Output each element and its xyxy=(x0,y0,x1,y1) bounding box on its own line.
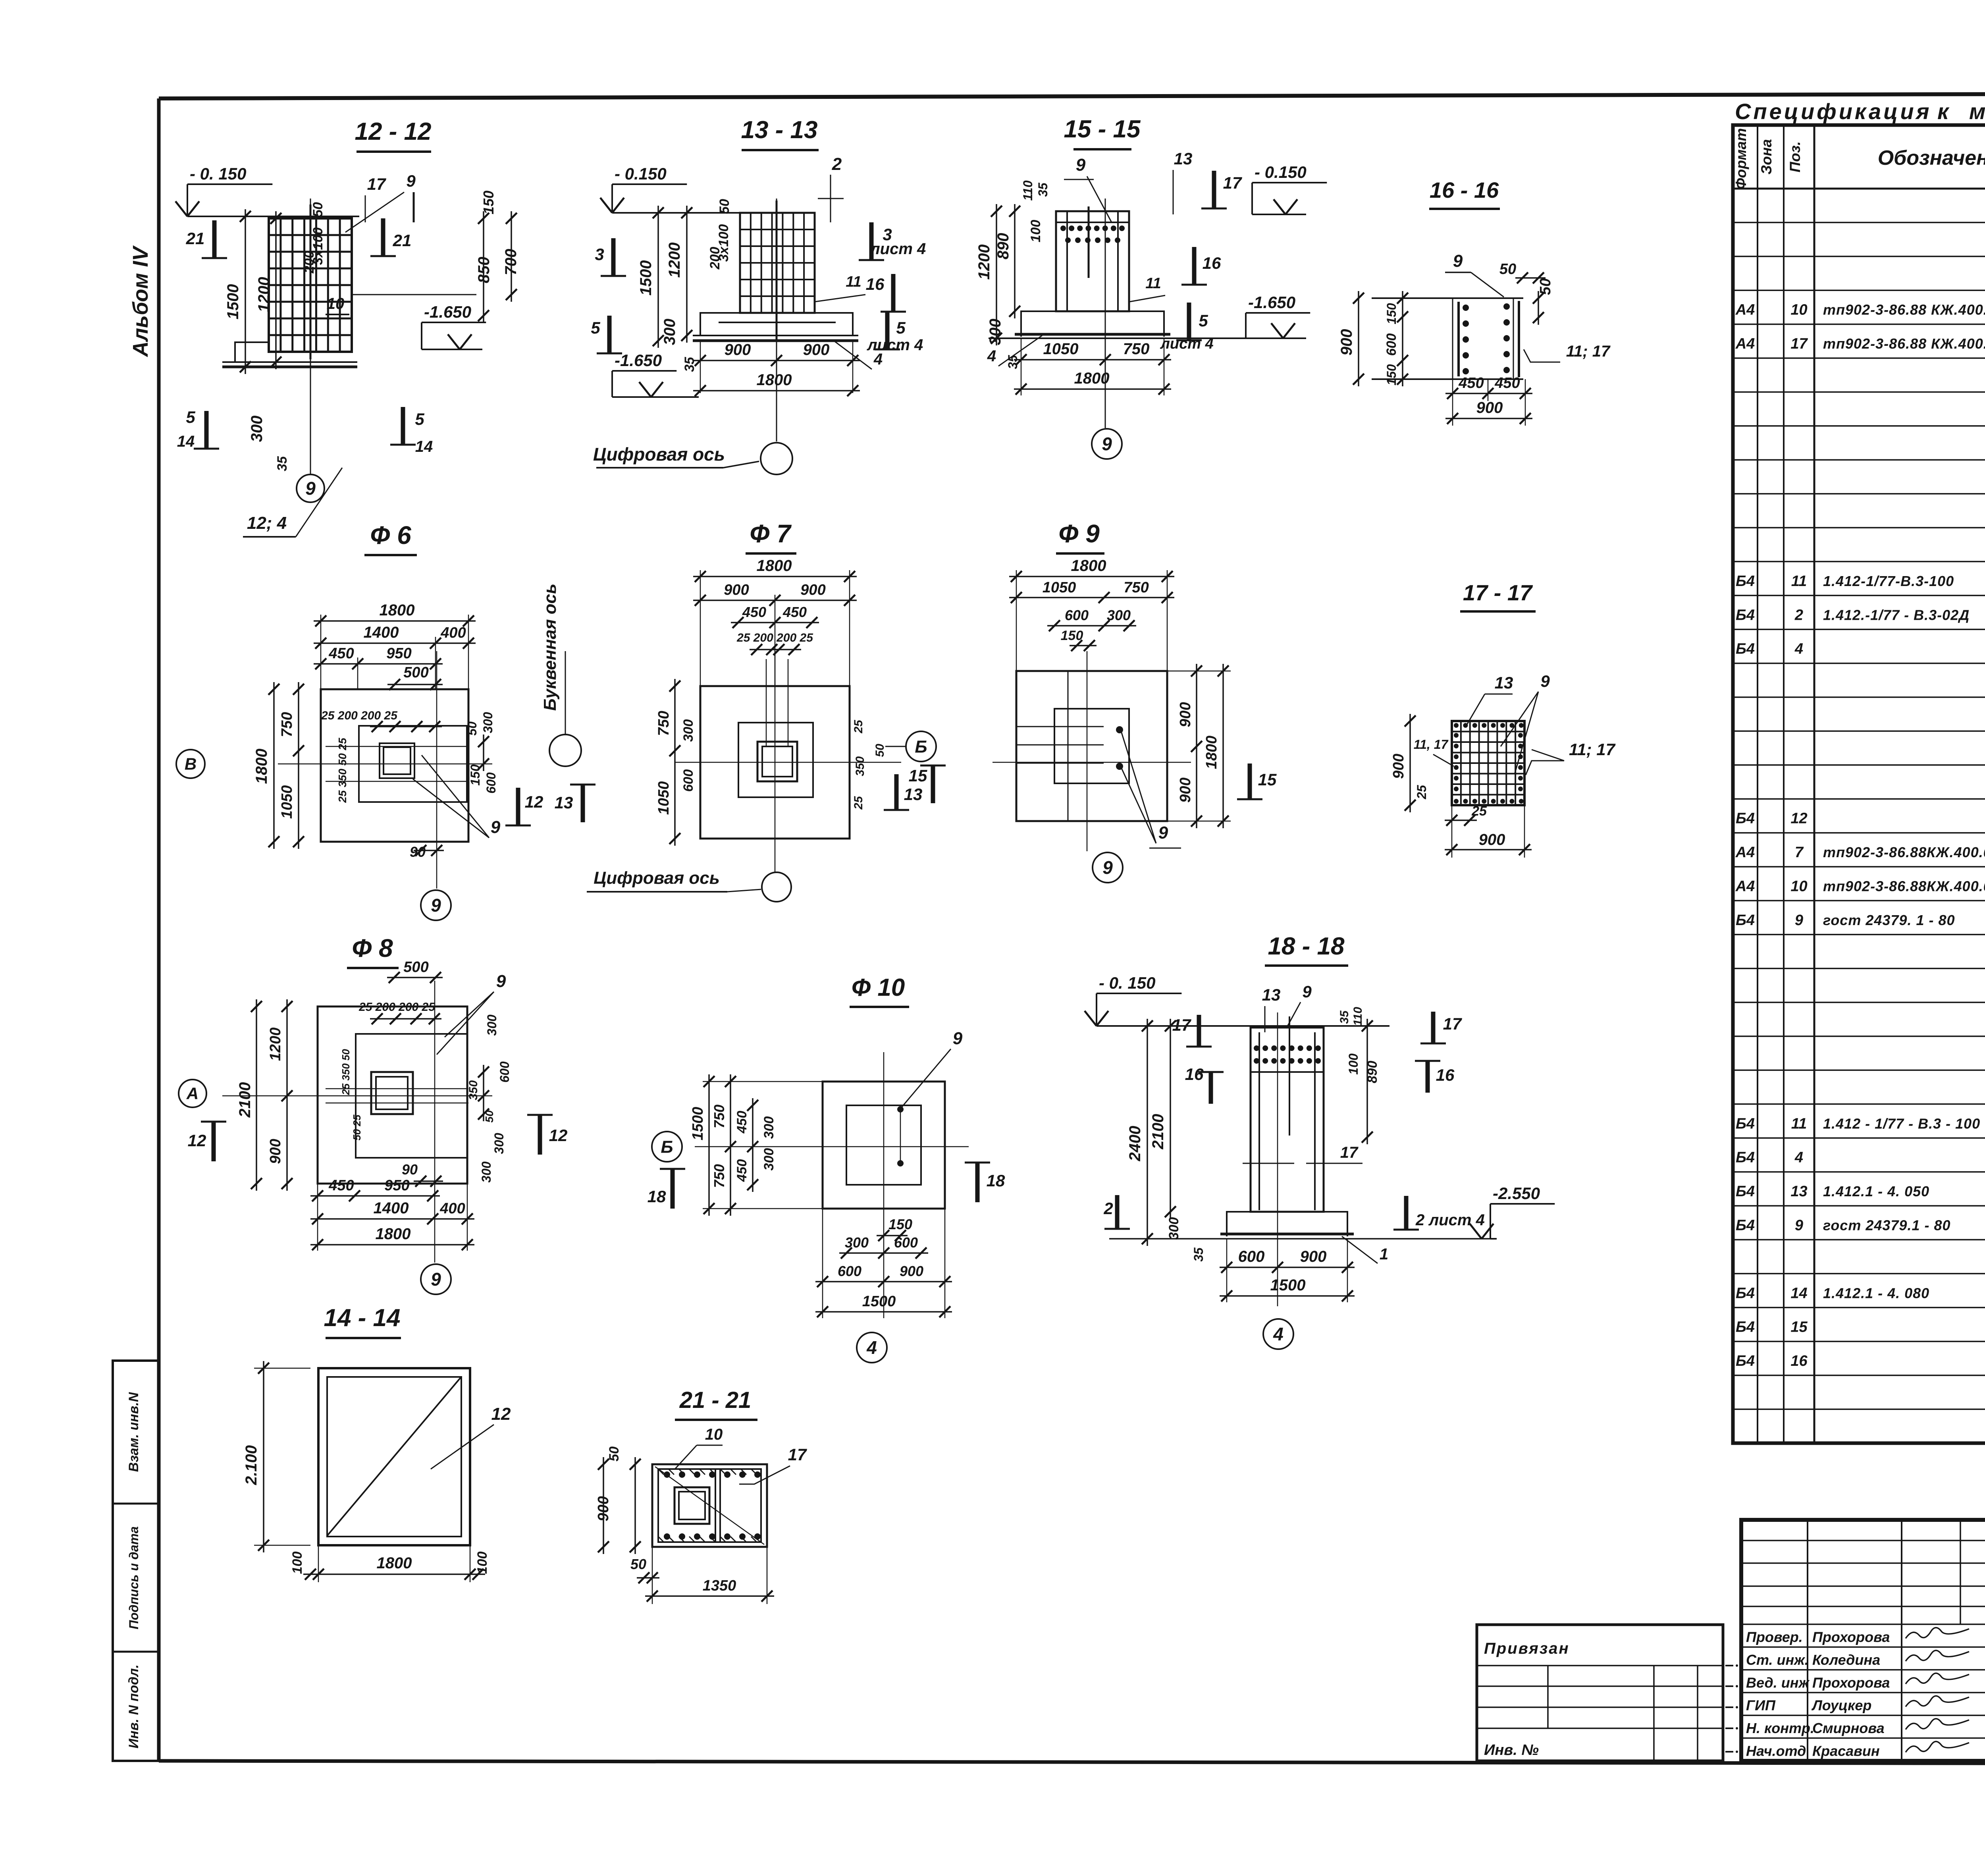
svg-text:- 0. 150: - 0. 150 xyxy=(190,164,246,183)
svg-text:Привязан: Привязан xyxy=(1484,1640,1570,1657)
svg-text:600: 600 xyxy=(1238,1248,1265,1265)
svg-text:890: 890 xyxy=(994,233,1012,260)
svg-text:16: 16 xyxy=(1185,1065,1204,1084)
svg-text:150: 150 xyxy=(468,764,482,786)
svg-text:11: 11 xyxy=(1791,573,1807,590)
svg-text:Прохорова: Прохорова xyxy=(1812,1629,1890,1645)
svg-text:50 25: 50 25 xyxy=(351,1114,363,1141)
svg-text:150: 150 xyxy=(888,1216,912,1232)
svg-text:лист 4: лист 4 xyxy=(1160,335,1213,352)
svg-text:25: 25 xyxy=(1415,785,1429,800)
svg-text:300: 300 xyxy=(761,1148,777,1171)
svg-text:11: 11 xyxy=(1791,1115,1807,1132)
svg-text:50: 50 xyxy=(310,202,326,217)
svg-text:17: 17 xyxy=(1172,1016,1191,1034)
svg-text:Провер.: Провер. xyxy=(1746,1629,1803,1645)
svg-text:- 0.150: - 0.150 xyxy=(615,164,667,183)
svg-text:900: 900 xyxy=(800,582,825,598)
svg-text:Б4: Б4 xyxy=(1736,607,1755,623)
svg-text:950: 950 xyxy=(386,645,411,662)
svg-text:В: В xyxy=(185,755,197,773)
svg-text:4: 4 xyxy=(873,351,883,368)
svg-text:11; 17: 11; 17 xyxy=(1569,740,1616,759)
svg-text:12: 12 xyxy=(188,1131,206,1150)
svg-text:16: 16 xyxy=(1436,1066,1455,1084)
svg-text:50: 50 xyxy=(465,721,479,736)
svg-text:50: 50 xyxy=(1537,278,1554,295)
svg-text:12: 12 xyxy=(549,1126,568,1145)
svg-text:4: 4 xyxy=(866,1337,877,1358)
svg-text:Б: Б xyxy=(915,737,927,756)
svg-text:16 - 16: 16 - 16 xyxy=(1430,177,1499,202)
svg-text:25 350 50: 25 350 50 xyxy=(340,1049,352,1095)
svg-text:150: 150 xyxy=(1384,364,1399,386)
svg-text:1400: 1400 xyxy=(364,624,399,641)
svg-text:100: 100 xyxy=(1346,1053,1361,1075)
svg-text:600: 600 xyxy=(1065,607,1089,623)
svg-text:1500: 1500 xyxy=(637,260,655,296)
svg-text:Смирнова: Смирнова xyxy=(1812,1720,1885,1736)
svg-text:11: 11 xyxy=(1145,275,1161,292)
svg-text:9: 9 xyxy=(1795,1217,1803,1234)
svg-text:300: 300 xyxy=(845,1234,869,1251)
svg-text:17: 17 xyxy=(1223,174,1242,192)
svg-text:Б4: Б4 xyxy=(1736,912,1755,929)
svg-text:900: 900 xyxy=(1390,754,1407,779)
svg-text:90: 90 xyxy=(402,1161,418,1178)
svg-text:Ф 9: Ф 9 xyxy=(1058,519,1100,548)
svg-text:25 200 200 25: 25 200 200 25 xyxy=(321,709,398,722)
svg-text:12 - 12: 12 - 12 xyxy=(355,118,431,145)
svg-text:1800: 1800 xyxy=(253,749,270,784)
svg-text:1500: 1500 xyxy=(862,1293,896,1310)
svg-text:5: 5 xyxy=(1199,311,1208,330)
svg-text:2: 2 xyxy=(1794,607,1803,623)
svg-text:Б4: Б4 xyxy=(1736,1319,1755,1336)
svg-text:9: 9 xyxy=(953,1029,963,1048)
svg-text:25: 25 xyxy=(852,719,865,734)
svg-text:110: 110 xyxy=(1351,1007,1364,1026)
svg-text:2: 2 xyxy=(832,154,842,174)
svg-text:4: 4 xyxy=(1273,1324,1284,1344)
svg-text:Инв. N подл.: Инв. N подл. xyxy=(126,1664,141,1749)
svg-text:-1.650: -1.650 xyxy=(615,351,662,370)
svg-text:17 - 17: 17 - 17 xyxy=(1463,580,1533,605)
svg-text:450: 450 xyxy=(328,645,354,662)
svg-text:Б4: Б4 xyxy=(1736,1353,1755,1369)
svg-text:150: 150 xyxy=(1384,303,1399,324)
svg-text:500: 500 xyxy=(403,959,428,976)
svg-text:50: 50 xyxy=(717,199,732,214)
svg-text:10: 10 xyxy=(327,295,345,312)
svg-text:9: 9 xyxy=(1302,982,1312,1001)
svg-text:9: 9 xyxy=(1076,155,1086,175)
svg-text:1800: 1800 xyxy=(1071,557,1106,575)
svg-text:1.412.1 - 4. 080: 1.412.1 - 4. 080 xyxy=(1823,1285,1929,1301)
svg-text:13: 13 xyxy=(904,785,923,804)
svg-text:1200: 1200 xyxy=(255,277,273,312)
svg-text:Прохорова: Прохорова xyxy=(1812,1674,1890,1691)
svg-text:13: 13 xyxy=(1495,673,1513,692)
svg-text:300: 300 xyxy=(248,416,266,442)
svg-text:-1.650: -1.650 xyxy=(1248,293,1295,312)
svg-text:Ф 8: Ф 8 xyxy=(352,934,393,962)
svg-text:Зона: Зона xyxy=(1758,139,1775,174)
svg-text:2100: 2100 xyxy=(1149,1114,1167,1150)
svg-text:тп902-3-86.88КЖ.400.00.04.00: тп902-3-86.88КЖ.400.00.04.00 xyxy=(1823,878,1985,894)
svg-text:900: 900 xyxy=(803,341,830,359)
svg-text:17: 17 xyxy=(1443,1014,1462,1033)
svg-text:150: 150 xyxy=(480,191,497,214)
svg-text:1200: 1200 xyxy=(975,245,993,280)
svg-text:А4: А4 xyxy=(1735,302,1755,318)
svg-text:600: 600 xyxy=(894,1234,918,1251)
svg-text:тп902-3-86.88КЖ.400.00.03.00: тп902-3-86.88КЖ.400.00.03.00 xyxy=(1823,844,1985,860)
svg-text:7: 7 xyxy=(1795,844,1804,861)
svg-text:Взам. инв.N: Взам. инв.N xyxy=(126,1392,141,1472)
svg-text:25 200 200 25: 25 200 200 25 xyxy=(358,1001,436,1014)
svg-text:1.412.1 - 4. 050: 1.412.1 - 4. 050 xyxy=(1823,1183,1929,1199)
svg-text:13: 13 xyxy=(1262,985,1281,1004)
svg-text:600: 600 xyxy=(484,772,498,794)
svg-text:Альбом IV: Альбом IV xyxy=(129,245,152,358)
svg-text:1500: 1500 xyxy=(224,284,242,320)
svg-text:14: 14 xyxy=(177,433,195,450)
svg-text:600: 600 xyxy=(838,1263,861,1279)
svg-text:900: 900 xyxy=(724,582,749,598)
svg-text:1800: 1800 xyxy=(757,557,792,575)
svg-text:Нач.отд: Нач.отд xyxy=(1746,1743,1806,1759)
svg-text:9: 9 xyxy=(1453,251,1463,271)
svg-text:Б4: Б4 xyxy=(1736,641,1755,657)
svg-text:Лоуцкер: Лоуцкер xyxy=(1811,1697,1871,1714)
svg-text:50: 50 xyxy=(483,1110,495,1123)
svg-text:лист 4: лист 4 xyxy=(869,240,926,258)
svg-text:-2.550: -2.550 xyxy=(1493,1184,1540,1203)
svg-text:Подпись и дата: Подпись и дата xyxy=(127,1526,141,1629)
svg-text:450: 450 xyxy=(782,604,807,620)
svg-text:300: 300 xyxy=(481,712,495,733)
svg-text:17: 17 xyxy=(367,175,386,193)
svg-text:400: 400 xyxy=(439,1200,465,1217)
svg-text:Ст. инж.: Ст. инж. xyxy=(1746,1652,1809,1668)
svg-text:9: 9 xyxy=(431,895,441,916)
svg-text:350: 350 xyxy=(467,1080,480,1100)
svg-text:Б4: Б4 xyxy=(1736,1217,1755,1234)
svg-text:300: 300 xyxy=(479,1161,493,1183)
svg-text:1800: 1800 xyxy=(757,371,792,389)
svg-text:450: 450 xyxy=(734,1111,750,1134)
svg-text:2400: 2400 xyxy=(1126,1126,1144,1162)
svg-text:9: 9 xyxy=(305,478,316,499)
svg-text:300: 300 xyxy=(761,1116,777,1139)
svg-text:Б: Б xyxy=(661,1137,673,1157)
svg-text:Б4: Б4 xyxy=(1736,1149,1755,1166)
svg-text:21: 21 xyxy=(186,229,205,248)
svg-text:50: 50 xyxy=(630,1556,646,1572)
svg-text:25 350 50 25: 25 350 50 25 xyxy=(336,738,349,803)
svg-text:500: 500 xyxy=(403,664,428,681)
svg-text:9: 9 xyxy=(496,972,506,991)
svg-text:600: 600 xyxy=(1384,334,1399,356)
svg-text:12: 12 xyxy=(491,1404,511,1424)
svg-text:4: 4 xyxy=(987,347,996,365)
svg-text:1800: 1800 xyxy=(1203,736,1220,769)
svg-text:850: 850 xyxy=(475,257,493,283)
svg-text:Коледина: Коледина xyxy=(1812,1652,1880,1668)
svg-text:16: 16 xyxy=(1203,254,1221,272)
svg-text:Вед. инж: Вед. инж xyxy=(1746,1674,1810,1691)
svg-text:18 - 18: 18 - 18 xyxy=(1268,933,1345,960)
svg-text:10: 10 xyxy=(705,1426,723,1443)
svg-text:1.412.-1/77 - В.3-02Д: 1.412.-1/77 - В.3-02Д xyxy=(1823,607,1970,623)
svg-text:35: 35 xyxy=(1338,1010,1351,1024)
svg-text:А4: А4 xyxy=(1735,335,1755,352)
svg-text:750: 750 xyxy=(279,712,295,737)
svg-text:17: 17 xyxy=(1790,335,1808,352)
svg-text:тп902-3-86.88 КЖ.400.00.05 00: тп902-3-86.88 КЖ.400.00.05 00 xyxy=(1823,335,1985,352)
svg-text:450: 450 xyxy=(328,1177,354,1194)
svg-text:4: 4 xyxy=(1794,641,1803,657)
svg-text:900: 900 xyxy=(1177,777,1194,802)
svg-text:1: 1 xyxy=(1380,1246,1388,1263)
svg-text:1800: 1800 xyxy=(380,602,415,619)
svg-text:9: 9 xyxy=(406,172,416,190)
svg-text:10: 10 xyxy=(1790,302,1807,318)
svg-text:Инв. №: Инв. № xyxy=(1484,1742,1539,1758)
svg-text:к: к xyxy=(1937,99,1951,124)
svg-text:Цифровая ось: Цифровая ось xyxy=(594,868,720,888)
svg-text:12: 12 xyxy=(1790,810,1807,827)
svg-text:1500: 1500 xyxy=(690,1107,706,1141)
svg-text:300: 300 xyxy=(987,319,1004,345)
svg-text:2100: 2100 xyxy=(236,1082,254,1118)
svg-text:9: 9 xyxy=(431,1269,441,1290)
svg-text:16: 16 xyxy=(1790,1353,1808,1369)
svg-text:Спецификация: Спецификация xyxy=(1735,99,1932,124)
svg-text:1800: 1800 xyxy=(377,1554,412,1572)
svg-text:9: 9 xyxy=(491,817,501,837)
svg-text:300: 300 xyxy=(1107,607,1131,623)
svg-text:Б4: Б4 xyxy=(1736,810,1755,827)
svg-text:35: 35 xyxy=(1036,182,1050,197)
svg-text:35: 35 xyxy=(1191,1247,1206,1262)
svg-text:11; 17: 11; 17 xyxy=(1566,343,1611,360)
svg-text:1200: 1200 xyxy=(666,243,683,278)
svg-text:900: 900 xyxy=(1177,702,1194,727)
svg-text:35: 35 xyxy=(682,357,697,372)
svg-text:- 0.150: - 0.150 xyxy=(1255,163,1307,181)
svg-text:5: 5 xyxy=(186,408,195,426)
svg-text:1800: 1800 xyxy=(1074,370,1110,387)
svg-text:Ф 6: Ф 6 xyxy=(370,521,411,549)
svg-text:А4: А4 xyxy=(1735,844,1755,861)
svg-text:900: 900 xyxy=(1338,329,1355,356)
svg-text:Поз.: Поз. xyxy=(1787,141,1803,172)
svg-text:350: 350 xyxy=(854,756,867,776)
svg-text:15: 15 xyxy=(1790,1319,1808,1336)
svg-text:А: А xyxy=(186,1084,198,1103)
svg-text:21: 21 xyxy=(393,231,412,250)
svg-text:900: 900 xyxy=(1479,831,1505,848)
svg-text:9: 9 xyxy=(1158,823,1168,843)
svg-text:100: 100 xyxy=(475,1552,490,1574)
svg-text:5: 5 xyxy=(415,410,424,428)
svg-text:3x100: 3x100 xyxy=(310,228,326,265)
svg-text:2.100: 2.100 xyxy=(243,1445,260,1485)
svg-text:А4: А4 xyxy=(1735,878,1755,895)
svg-text:3: 3 xyxy=(595,245,604,264)
svg-text:- 0. 150: - 0. 150 xyxy=(1099,974,1155,992)
svg-text:Формат: Формат xyxy=(1733,128,1749,189)
svg-text:14 - 14: 14 - 14 xyxy=(324,1304,400,1332)
svg-text:90: 90 xyxy=(410,844,426,860)
svg-text:900: 900 xyxy=(900,1263,923,1279)
svg-text:Ф 10: Ф 10 xyxy=(852,974,905,1001)
svg-text:900: 900 xyxy=(1476,399,1503,416)
svg-text:9: 9 xyxy=(1540,672,1550,690)
svg-text:Красавин: Красавин xyxy=(1812,1743,1880,1759)
svg-text:450: 450 xyxy=(1458,375,1484,391)
svg-text:25: 25 xyxy=(852,796,865,810)
svg-text:11: 11 xyxy=(846,274,861,290)
svg-text:Обозначение: Обозначение xyxy=(1878,147,1985,170)
svg-text:Б4: Б4 xyxy=(1736,1183,1755,1200)
svg-text:16: 16 xyxy=(866,275,885,293)
svg-text:13: 13 xyxy=(1174,149,1193,168)
svg-text:Б4: Б4 xyxy=(1736,1285,1755,1301)
svg-text:1200: 1200 xyxy=(267,1028,284,1061)
svg-text:25: 25 xyxy=(1471,804,1487,819)
svg-text:600: 600 xyxy=(681,769,696,792)
svg-text:ГИП: ГИП xyxy=(1746,1697,1776,1714)
svg-text:900: 900 xyxy=(267,1139,284,1164)
svg-text:13: 13 xyxy=(1790,1183,1807,1200)
svg-text:17: 17 xyxy=(1340,1144,1359,1161)
svg-text:1400: 1400 xyxy=(374,1199,409,1217)
svg-text:13: 13 xyxy=(555,793,573,812)
svg-text:Буквенная ось: Буквенная ось xyxy=(540,584,560,711)
svg-text:1050: 1050 xyxy=(279,785,295,819)
svg-text:14: 14 xyxy=(1790,1285,1807,1301)
svg-text:21 - 21: 21 - 21 xyxy=(679,1387,752,1413)
svg-text:9: 9 xyxy=(1102,434,1112,454)
svg-text:11, 17: 11, 17 xyxy=(1414,737,1449,752)
svg-text:18: 18 xyxy=(648,1187,666,1206)
svg-text:1.412 - 1/77 - В.3 - 100: 1.412 - 1/77 - В.3 - 100 xyxy=(1823,1115,1980,1132)
svg-text:17: 17 xyxy=(788,1445,807,1464)
svg-text:монолитным: монолитным xyxy=(1969,99,1985,124)
svg-text:900: 900 xyxy=(725,341,751,359)
svg-text:15 - 15: 15 - 15 xyxy=(1064,116,1141,143)
svg-text:Б4: Б4 xyxy=(1736,573,1755,590)
svg-text:гост 24379.1 - 80: гост 24379.1 - 80 xyxy=(1823,1217,1951,1233)
svg-text:950: 950 xyxy=(384,1177,409,1194)
svg-text:Б4: Б4 xyxy=(1736,1115,1755,1132)
svg-text:12; 4: 12; 4 xyxy=(247,513,287,533)
svg-text:15: 15 xyxy=(1258,770,1277,789)
svg-text:15: 15 xyxy=(909,766,927,785)
svg-text:750: 750 xyxy=(711,1164,727,1188)
svg-text:2 лист 4: 2 лист 4 xyxy=(1415,1211,1485,1229)
svg-text:2: 2 xyxy=(1103,1199,1113,1218)
svg-text:900: 900 xyxy=(1300,1248,1327,1265)
svg-text:750: 750 xyxy=(655,711,672,736)
svg-text:4: 4 xyxy=(1794,1149,1803,1166)
svg-text:300: 300 xyxy=(1166,1217,1181,1240)
svg-text:Цифровая ось: Цифровая ось xyxy=(593,444,725,465)
svg-text:50: 50 xyxy=(873,744,887,757)
svg-text:100: 100 xyxy=(1028,220,1043,243)
svg-text:9: 9 xyxy=(1795,912,1803,929)
svg-text:1.412-1/77-В.3-100: 1.412-1/77-В.3-100 xyxy=(1823,573,1954,589)
svg-text:450: 450 xyxy=(734,1159,750,1182)
svg-text:1050: 1050 xyxy=(655,781,672,815)
svg-text:300: 300 xyxy=(681,719,696,742)
svg-text:150: 150 xyxy=(1061,628,1083,643)
svg-text:110: 110 xyxy=(1021,180,1035,201)
svg-text:14: 14 xyxy=(415,438,433,455)
svg-text:300: 300 xyxy=(661,319,678,345)
svg-text:35: 35 xyxy=(275,456,290,471)
svg-text:750: 750 xyxy=(711,1105,727,1128)
svg-text:750: 750 xyxy=(1124,579,1149,596)
svg-text:3x100: 3x100 xyxy=(716,224,731,262)
svg-text:1050: 1050 xyxy=(1043,340,1079,358)
svg-text:5: 5 xyxy=(896,318,906,337)
svg-text:1500: 1500 xyxy=(1270,1276,1306,1294)
svg-text:300: 300 xyxy=(485,1014,499,1036)
svg-text:750: 750 xyxy=(1123,340,1150,358)
svg-text:18: 18 xyxy=(987,1171,1005,1190)
svg-text:400: 400 xyxy=(440,625,466,641)
svg-text:12: 12 xyxy=(525,792,543,811)
svg-text:1050: 1050 xyxy=(1043,579,1076,596)
svg-text:450: 450 xyxy=(742,604,766,620)
svg-text:1800: 1800 xyxy=(376,1225,411,1243)
svg-text:450: 450 xyxy=(1494,375,1520,391)
svg-text:гост 24379. 1 - 80: гост 24379. 1 - 80 xyxy=(1823,912,1955,928)
svg-text:300: 300 xyxy=(492,1133,506,1154)
svg-text:тп902-3-86.88 КЖ.400.00.04.00: тп902-3-86.88 КЖ.400.00.04.00 xyxy=(1823,302,1985,318)
svg-text:50: 50 xyxy=(1499,261,1516,278)
svg-text:9: 9 xyxy=(1102,857,1113,878)
svg-text:Н. контр.: Н. контр. xyxy=(1746,1720,1814,1736)
svg-text:13 - 13: 13 - 13 xyxy=(741,116,817,144)
svg-text:1350: 1350 xyxy=(703,1577,736,1594)
svg-text:100: 100 xyxy=(290,1552,305,1574)
svg-text:5: 5 xyxy=(591,318,600,337)
svg-text:Ф 7: Ф 7 xyxy=(750,519,792,548)
svg-text:600: 600 xyxy=(497,1061,512,1083)
svg-text:-1.650: -1.650 xyxy=(424,303,471,321)
svg-text:10: 10 xyxy=(1790,878,1807,895)
